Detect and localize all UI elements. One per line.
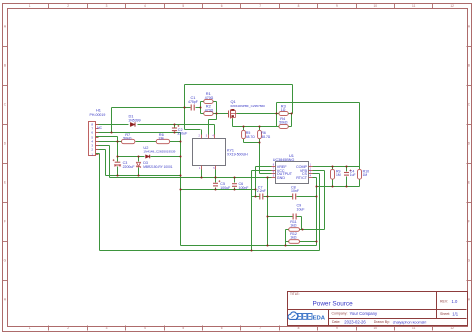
svg-text:1N5399: 1N5399 — [128, 119, 140, 123]
svg-text:A: A — [4, 25, 7, 29]
svg-text:50kΩ: 50kΩ — [279, 121, 288, 125]
svg-text:2.2nF: 2.2nF — [257, 189, 266, 193]
svg-text:E: E — [4, 181, 6, 185]
svg-text:1kΩ: 1kΩ — [290, 224, 297, 228]
svg-text:D: D — [4, 142, 7, 146]
svg-text:12: 12 — [450, 4, 454, 8]
svg-text:IRF640NPBF_C2957860: IRF640NPBF_C2957860 — [231, 104, 266, 108]
svg-text:Sheet:: Sheet: — [440, 312, 450, 316]
svg-text:2023-02-26: 2023-02-26 — [344, 320, 366, 325]
svg-text:PH-00019: PH-00019 — [90, 113, 106, 117]
svg-text:5: 5 — [182, 326, 184, 330]
svg-text:9: 9 — [336, 326, 338, 330]
svg-text:8: 8 — [298, 4, 300, 8]
svg-text:C: C — [4, 103, 7, 107]
svg-text:2: 2 — [199, 135, 201, 138]
svg-text:10: 10 — [374, 326, 378, 330]
svg-text:2: 2 — [67, 4, 69, 8]
svg-text:100uF: 100uF — [220, 186, 230, 190]
svg-text:1.0: 1.0 — [452, 299, 458, 304]
svg-text:11: 11 — [412, 326, 416, 330]
svg-text:10: 10 — [374, 4, 378, 8]
svg-text:E: E — [468, 181, 470, 185]
svg-text:H: H — [468, 298, 471, 302]
svg-text:6: 6 — [221, 4, 223, 8]
svg-text:D: D — [468, 142, 471, 146]
svg-text:330uF: 330uF — [177, 132, 187, 136]
svg-text:5: 5 — [182, 4, 184, 8]
svg-text:REV:: REV: — [440, 300, 448, 304]
svg-text:48.7Ω: 48.7Ω — [246, 135, 255, 139]
svg-text:NC: NC — [97, 126, 102, 130]
svg-text:4: 4 — [144, 326, 146, 330]
svg-text:GND: GND — [277, 176, 286, 180]
svg-text:1N4148_C2655019539: 1N4148_C2655019539 — [143, 150, 175, 154]
svg-text:3: 3 — [106, 4, 108, 8]
svg-text:MBR2150-RY 10001: MBR2150-RY 10001 — [143, 165, 173, 169]
svg-text:2: 2 — [67, 326, 69, 330]
svg-text:A: A — [468, 25, 471, 29]
svg-text:B: B — [468, 64, 470, 68]
svg-text:7: 7 — [259, 4, 261, 8]
svg-text:100nF: 100nF — [239, 186, 249, 190]
svg-text:EDA: EDA — [313, 315, 326, 321]
svg-text:1: 1 — [29, 326, 31, 330]
svg-text:10nF: 10nF — [291, 189, 299, 193]
svg-text:UC3845BNG: UC3845BNG — [273, 158, 295, 162]
svg-text:13k: 13k — [158, 137, 164, 141]
svg-text:Your Company: Your Company — [350, 311, 378, 316]
svg-text:1M: 1M — [363, 173, 368, 177]
svg-text:B: B — [4, 64, 6, 68]
svg-text:G: G — [4, 259, 7, 263]
svg-text:XX19-500UH: XX19-500UH — [227, 152, 248, 156]
svg-text:Drawn By:: Drawn By: — [374, 320, 390, 324]
svg-text:H: H — [4, 298, 7, 302]
svg-text:50kΩ: 50kΩ — [123, 137, 132, 141]
svg-text:Company:: Company: — [332, 312, 348, 316]
svg-text:8: 8 — [298, 326, 300, 330]
svg-text:9: 9 — [336, 4, 338, 8]
svg-text:475pF: 475pF — [188, 100, 198, 104]
svg-text:chaiyaphon koomsiri: chaiyaphon koomsiri — [393, 321, 427, 325]
svg-text:Power Source: Power Source — [313, 300, 354, 307]
svg-text:C: C — [468, 103, 471, 107]
svg-text:1/1: 1/1 — [452, 311, 458, 316]
svg-text:1: 1 — [29, 4, 31, 8]
svg-text:6: 6 — [221, 326, 223, 330]
svg-text:12: 12 — [450, 326, 454, 330]
svg-text:2200uF: 2200uF — [123, 165, 135, 169]
svg-text:3: 3 — [106, 326, 108, 330]
svg-text:3: 3 — [206, 135, 208, 138]
svg-text:470Ω: 470Ω — [205, 96, 214, 100]
svg-text:4: 4 — [144, 4, 146, 8]
svg-text:11: 11 — [412, 4, 416, 8]
svg-text:TITLE:: TITLE: — [290, 292, 300, 296]
svg-text:F: F — [468, 220, 470, 224]
svg-text:RT/CT: RT/CT — [296, 176, 308, 180]
svg-text:1: 1 — [199, 167, 201, 170]
svg-text:F: F — [4, 220, 6, 224]
svg-text:1M: 1M — [336, 173, 341, 177]
svg-text:48.7Ω: 48.7Ω — [261, 135, 270, 139]
svg-text:1kΩ: 1kΩ — [290, 236, 297, 240]
svg-text:G: G — [468, 259, 471, 263]
svg-text:470Ω: 470Ω — [205, 108, 214, 112]
svg-text:1Ω: 1Ω — [281, 108, 286, 112]
svg-text:Date:: Date: — [332, 320, 340, 324]
svg-text:1uF: 1uF — [350, 173, 356, 177]
svg-text:7: 7 — [259, 326, 261, 330]
svg-text:10uF: 10uF — [297, 207, 305, 211]
